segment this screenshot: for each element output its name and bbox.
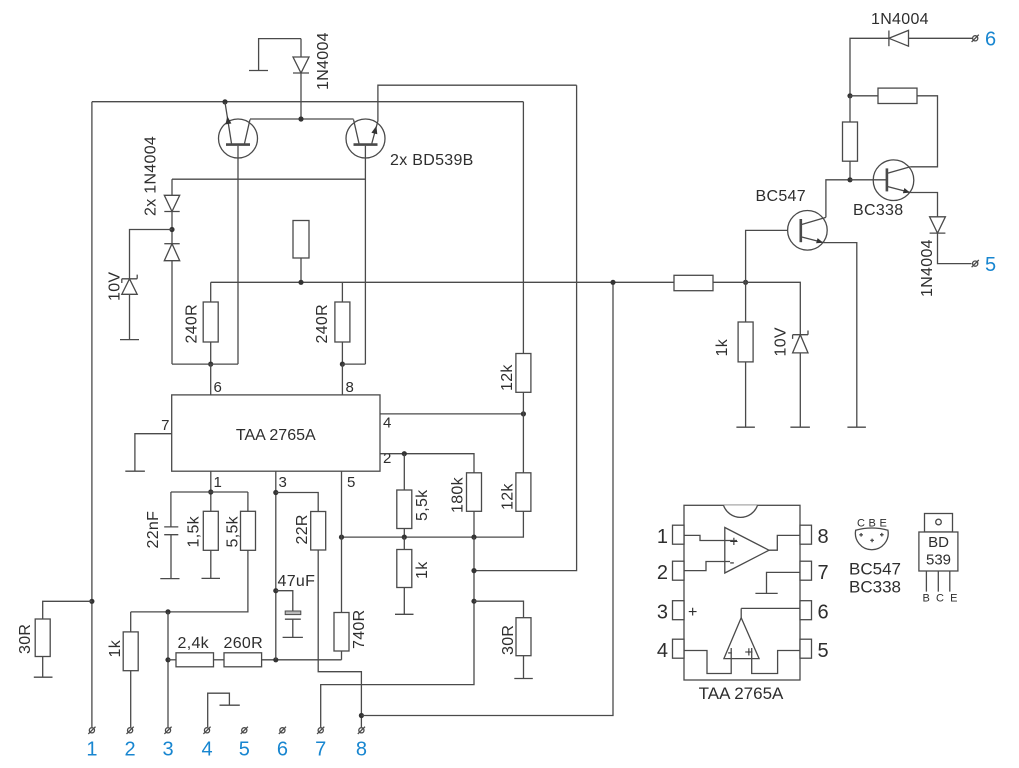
wire: terminal 8 line to x=613 column: [361, 282, 613, 715]
svg-text:30R: 30R: [17, 624, 34, 654]
svg-text:5: 5: [818, 640, 829, 662]
node: between D2 and D3: [169, 227, 174, 232]
svg-text:47uF: 47uF: [278, 573, 316, 590]
wire: BC547 emitter to rail: [824, 243, 857, 428]
pin 1 stub: [673, 525, 685, 544]
node: BC338 base junction: [847, 177, 852, 182]
pin 6 stub: [800, 601, 812, 620]
node: pin3 / 47uF junction: [273, 588, 278, 593]
diode D3 (2x 1N4004 lower, pointing up): [164, 244, 179, 364]
diode D1 1N4004 (top center): [293, 39, 309, 119]
resistor 2,4k: [176, 653, 214, 667]
svg-text:5,5k: 5,5k: [414, 489, 431, 521]
pin 2 stub: [673, 561, 685, 580]
svg-text:10V: 10V: [107, 272, 124, 301]
terminal 5 (bottom row, unconnected): [241, 727, 248, 734]
svg-text:260R: 260R: [224, 635, 263, 652]
svg-text:2: 2: [125, 739, 136, 761]
svg-text:BC547: BC547: [756, 188, 806, 205]
wire: left rail down to terminal 1: [91, 102, 93, 727]
svg-text:1N4004: 1N4004: [919, 239, 936, 297]
node: bus / x=613 junction: [610, 280, 615, 285]
BD539 package (TO-220): [919, 514, 958, 592]
svg-text:6: 6: [277, 739, 288, 761]
svg-text:CBE: CBE: [857, 518, 890, 530]
resistor 5,5k left: [131, 492, 256, 612]
op-amp A2 (lower, pointing up): [724, 618, 759, 661]
svg-text:1N4004: 1N4004: [315, 32, 332, 90]
terminal 5 (right output): [972, 260, 979, 267]
terminal 6 (bottom row, unconnected): [279, 727, 286, 734]
terminal 3: [164, 727, 171, 734]
svg-text:4: 4: [201, 739, 212, 761]
node: bus / Q1 emitter junction: [222, 99, 227, 104]
svg-text:1k: 1k: [414, 561, 431, 579]
ground (pin 7): [125, 470, 145, 472]
svg-text:1: 1: [657, 526, 668, 548]
resistor 5,5k right: [397, 454, 412, 537]
resistor R-center (unlabeled, under diode): [293, 221, 309, 283]
svg-text:8: 8: [356, 739, 367, 761]
svg-text:1,5k: 1,5k: [186, 515, 203, 547]
node: pin 1 junction: [208, 489, 213, 494]
node: pin3 / 22R junction: [273, 490, 278, 495]
svg-text:7: 7: [818, 562, 829, 584]
wire: pin 5 column: [341, 471, 343, 612]
svg-text:240R: 240R: [314, 304, 331, 343]
wire: A2 output to pin6: [741, 608, 800, 617]
svg-text:BCE: BCE: [923, 593, 964, 605]
node: center resistor to bus: [298, 280, 303, 285]
resistor 12k lower: [342, 414, 531, 537]
pin 8 stub: [800, 525, 812, 544]
transistor Q2 (BD539B right): [346, 119, 385, 364]
svg-text:30R: 30R: [500, 625, 517, 655]
ground: [249, 39, 301, 71]
capacitor 22nF: [160, 492, 179, 579]
svg-text:5: 5: [347, 474, 355, 491]
wire: Q2 emitter up and right to x=576 rail: [378, 85, 577, 121]
svg-text:5,5k: 5,5k: [225, 515, 242, 547]
terminal 1: [88, 727, 95, 734]
svg-text:12k: 12k: [499, 364, 516, 391]
wire: between 2,4k and 260R: [214, 659, 225, 661]
op-amp A1 (upper, inside package): [725, 528, 769, 574]
terminal 7: [317, 727, 324, 734]
resistor 1k right: [395, 537, 414, 614]
wire: x=523 column from top bus: [522, 102, 524, 354]
op-amp U1 TAA 2765A (main box): [172, 395, 380, 471]
svg-text:4: 4: [657, 640, 668, 662]
zener Z1 10V: [120, 230, 172, 340]
svg-text:2,4k: 2,4k: [178, 635, 210, 652]
wire: pin2 to A1 - input: [684, 562, 730, 571]
svg-text:180k: 180k: [450, 476, 467, 513]
svg-text:+: +: [688, 604, 697, 621]
wire: pin 1 horizontal: [171, 491, 248, 493]
wire: 22R branch top: [276, 493, 318, 512]
node: x=474/x=576 junction: [471, 568, 476, 573]
wire: y=364 left segment: [172, 363, 238, 365]
wire: pin7 to internal ground: [767, 572, 801, 593]
wire: resistor row right to 740R: [262, 659, 342, 661]
node: bus / BC547 base junction: [743, 280, 748, 285]
terminal 8: [358, 727, 365, 734]
wire: pin 8 lead: [341, 364, 343, 395]
svg-text:240R: 240R: [184, 304, 201, 343]
svg-text:4: 4: [383, 415, 391, 432]
resistor 1k left: [123, 612, 138, 727]
node: pin5 column junction: [339, 535, 344, 540]
pin 4 stub: [673, 639, 685, 658]
wire: pin 1 lead: [210, 471, 212, 511]
node: left rail / 30R junction: [89, 599, 94, 604]
wire: y=364 right segment: [342, 363, 365, 365]
wire: BC338 emitter to diode: [910, 193, 937, 217]
resistor 180k: [467, 473, 482, 537]
svg-text:1: 1: [86, 739, 97, 761]
resistor R-out (unlabeled horizontal on bus): [674, 275, 713, 290]
wire: pin1 to A1 + input: [684, 535, 737, 540]
transistor Q3 BC547: [788, 211, 828, 251]
svg-text:5: 5: [239, 739, 250, 761]
node: pin4/12k junction: [521, 411, 526, 416]
svg-text:539: 539: [926, 552, 951, 569]
wire: top bus: [92, 101, 524, 103]
switch / contact at terminal 4: [208, 693, 240, 727]
zener Z2 10V: [713, 282, 810, 427]
node: 240R left bottom: [208, 362, 213, 367]
svg-text:8: 8: [346, 379, 354, 396]
node: terminal 8 junction: [359, 713, 364, 718]
svg-text:1N4004: 1N4004: [871, 11, 929, 28]
svg-text:BD: BD: [928, 534, 949, 551]
IC package TAA 2765A outline: [684, 505, 800, 680]
ground (inside package): [755, 592, 777, 594]
svg-text:22R: 22R: [294, 514, 311, 544]
wire: pin 3 column: [275, 471, 277, 660]
wire: BC547 base: [746, 230, 801, 282]
pin 5 stub: [800, 639, 812, 658]
resistor 22R: [311, 512, 362, 728]
svg-text:2: 2: [383, 450, 391, 467]
svg-text:740R: 740R: [351, 610, 368, 649]
wire: pin4 to A2 - input: [684, 648, 731, 674]
svg-text:+: +: [730, 534, 739, 551]
svg-text:8: 8: [818, 526, 829, 548]
terminal 4: [203, 727, 210, 734]
resistor 240R right: [335, 282, 350, 364]
resistor 1k (BC547 emitter load): [736, 282, 755, 427]
wire: x=576 rail down: [474, 85, 577, 570]
node: 240R right bottom: [340, 362, 345, 367]
pin 3 stub: [673, 601, 685, 620]
svg-text:BC547: BC547: [849, 560, 901, 579]
wire: main mid bus y=282: [211, 281, 674, 283]
svg-text:2x 1N4004: 2x 1N4004: [143, 136, 160, 216]
node: 180k bottom junction: [471, 535, 476, 540]
svg-text:7: 7: [161, 417, 169, 434]
terminal 2: [127, 727, 134, 734]
ground bar (emitter rail end): [847, 426, 866, 428]
resistor 260R: [224, 653, 262, 667]
node: terminal3 / resistor row junction: [165, 657, 170, 662]
svg-text:3: 3: [279, 474, 287, 491]
resistor 30R right: [474, 601, 533, 678]
svg-text:22nF: 22nF: [145, 511, 162, 549]
node: x=474/30R junction: [471, 599, 476, 604]
diode D4 1N4004 (to terminal 6, pointing left): [850, 30, 972, 95]
terminal 6 (right output): [972, 35, 979, 42]
resistor (vertical, BC338 base feed): [843, 96, 858, 180]
svg-text:6: 6: [985, 29, 996, 51]
svg-text:7: 7: [315, 739, 326, 761]
wire: base line from diode branch to Q2 base: [172, 178, 365, 180]
capacitor 47uF (electrolytic): [276, 591, 303, 638]
svg-text:1: 1: [214, 474, 222, 491]
node: row / pin3 column: [273, 657, 278, 662]
svg-text:2x BD539B: 2x BD539B: [390, 152, 474, 169]
node: collector center junction: [298, 116, 303, 121]
svg-text:6: 6: [818, 602, 829, 624]
wire: A1 output to pin8: [769, 535, 800, 550]
svg-text:BC338: BC338: [849, 578, 901, 597]
wire: terminal 3 column: [167, 612, 169, 727]
svg-text:2: 2: [657, 562, 668, 584]
wire: pin 6 lead: [210, 364, 212, 395]
resistor 740R: [334, 613, 349, 660]
node: 5.5k/1k junction: [402, 535, 407, 540]
wire: pin 4 to 12k column: [380, 413, 523, 415]
svg-text:3: 3: [162, 739, 173, 761]
svg-text:TAA 2765A: TAA 2765A: [699, 684, 784, 703]
diode D2 (2x 1N4004 upper): [164, 179, 179, 244]
svg-text:10V: 10V: [773, 327, 790, 356]
svg-text:5: 5: [985, 254, 996, 276]
resistor 30R left: [34, 601, 92, 677]
svg-text:6: 6: [214, 379, 222, 396]
diode D5 1N4004 (to terminal 5, pointing down): [930, 217, 972, 264]
wire: pin 7 to ground: [135, 434, 172, 472]
wire: 180k column down to terminal 7 line: [321, 537, 474, 727]
resistor 1,5k: [202, 511, 221, 578]
svg-text:BC338: BC338: [853, 202, 903, 219]
wire: Q1 collector to center node: [250, 118, 354, 120]
svg-text:12k: 12k: [500, 483, 517, 510]
svg-text:3: 3: [657, 602, 668, 624]
pin 7 stub: [800, 561, 812, 580]
resistor (horizontal, BC338 collector): [850, 88, 938, 167]
svg-text:1k: 1k: [714, 338, 731, 356]
svg-text:TAA 2765A: TAA 2765A: [236, 427, 316, 444]
node: pin2/5.5k junction: [402, 451, 407, 456]
transistor Q1 (BD539B left): [219, 102, 258, 364]
wire: resistor row left: [168, 659, 176, 661]
node: diode / resistor junction: [847, 93, 852, 98]
transistor Q4 BC338: [850, 160, 914, 201]
wire: BC547 collector up to node: [826, 180, 850, 218]
node: y=612 / terminal3 junction: [165, 609, 170, 614]
svg-text:1k: 1k: [107, 639, 124, 657]
svg-text:-: -: [730, 554, 735, 571]
wire: pin5 to A2 + input: [752, 648, 800, 674]
resistor 12k upper: [516, 354, 531, 414]
resistor 240R left: [203, 282, 218, 364]
BC547/BC338 pinout (TO-92 bottom view): [855, 528, 888, 550]
wire: pin 2 line: [380, 454, 474, 473]
